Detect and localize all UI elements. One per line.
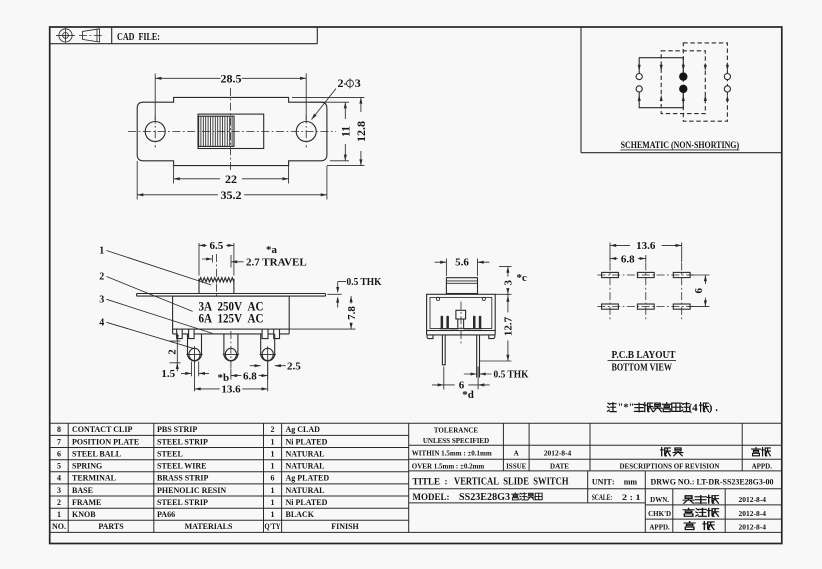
svg-text:MATERIALS: MATERIALS xyxy=(185,522,233,531)
svg-text:SCHEMATIC (NON-SHORTING): SCHEMATIC (NON-SHORTING) xyxy=(621,140,740,151)
svg-text:28.5: 28.5 xyxy=(221,71,242,85)
svg-text:PARTS: PARTS xyxy=(98,522,124,531)
svg-text:2.7 TRAVEL: 2.7 TRAVEL xyxy=(246,257,307,269)
svg-text:35.2: 35.2 xyxy=(221,188,242,202)
svg-text:STEEL STRIP: STEEL STRIP xyxy=(157,437,208,446)
svg-text:2.5: 2.5 xyxy=(287,360,301,372)
svg-text:"*": "*" xyxy=(618,403,635,414)
svg-text:1: 1 xyxy=(271,510,275,519)
svg-text:PBS STRIP: PBS STRIP xyxy=(157,425,197,434)
svg-text:DWN.: DWN. xyxy=(650,496,669,504)
svg-text:SS23E28G3: SS23E28G3 xyxy=(459,492,510,503)
svg-text:5: 5 xyxy=(57,462,61,471)
svg-text:NATURAL: NATURAL xyxy=(286,462,325,471)
svg-text:8: 8 xyxy=(57,425,61,434)
svg-text:CHK'D: CHK'D xyxy=(648,510,671,518)
svg-text:2012-8-4: 2012-8-4 xyxy=(739,523,767,532)
svg-text:2012-8-4: 2012-8-4 xyxy=(739,495,767,504)
svg-text:6: 6 xyxy=(693,288,705,294)
svg-text:3: 3 xyxy=(57,486,61,495)
svg-text:5.6: 5.6 xyxy=(455,256,469,268)
svg-text:0.5 THK: 0.5 THK xyxy=(494,369,529,381)
svg-text:0.5 THK: 0.5 THK xyxy=(347,276,382,288)
svg-text:13.6: 13.6 xyxy=(221,384,241,396)
svg-text:TITLE :: TITLE : xyxy=(413,477,448,487)
svg-text:*c: *c xyxy=(517,272,528,284)
svg-text:APPD.: APPD. xyxy=(752,462,773,470)
svg-text:Ni PLATED: Ni PLATED xyxy=(286,498,328,507)
svg-text:TERMINAL: TERMINAL xyxy=(72,474,116,483)
svg-text:Ni PLATED: Ni PLATED xyxy=(286,437,328,446)
svg-text:1.5: 1.5 xyxy=(161,368,175,380)
svg-text:1: 1 xyxy=(271,462,275,471)
svg-text:3: 3 xyxy=(503,280,515,286)
svg-text:TOLERANCE: TOLERANCE xyxy=(434,426,479,434)
svg-text:OVER 1.5mm : ±0.2mm: OVER 1.5mm : ±0.2mm xyxy=(412,462,485,470)
svg-text:UNIT: UNIT xyxy=(592,478,613,487)
svg-text:NATURAL: NATURAL xyxy=(286,486,325,495)
svg-text:3: 3 xyxy=(99,294,104,305)
svg-text:2-: 2- xyxy=(338,76,348,90)
svg-text:1: 1 xyxy=(271,498,275,507)
svg-text:FINISH: FINISH xyxy=(331,522,359,531)
svg-text:NATURAL: NATURAL xyxy=(286,449,325,458)
svg-text:VERTICAL SLIDE SWITCH: VERTICAL SLIDE SWITCH xyxy=(454,477,569,488)
svg-text:6.8: 6.8 xyxy=(621,253,635,265)
svg-text:KNOB: KNOB xyxy=(72,510,96,519)
svg-text:MODEL:: MODEL: xyxy=(413,492,450,502)
svg-text:DATE: DATE xyxy=(550,462,569,470)
svg-text:SPRING: SPRING xyxy=(72,462,102,471)
svg-text:P.C.B LAYOUT: P.C.B LAYOUT xyxy=(612,349,677,361)
svg-text:Ag CLAD: Ag CLAD xyxy=(286,425,321,434)
svg-text:12.7: 12.7 xyxy=(503,316,515,336)
svg-text:2 : 1: 2 : 1 xyxy=(622,493,641,502)
svg-text:7.8: 7.8 xyxy=(346,306,358,320)
svg-text:PA66: PA66 xyxy=(157,510,175,519)
svg-text:2012-8-4: 2012-8-4 xyxy=(739,509,767,518)
svg-text:*b: *b xyxy=(217,372,229,384)
svg-text:2: 2 xyxy=(271,425,275,434)
svg-text:WITHIN 1.5mm : ±0.1mm: WITHIN 1.5mm : ±0.1mm xyxy=(412,449,492,457)
svg-text:1: 1 xyxy=(271,449,275,458)
svg-text:STEEL STRIP: STEEL STRIP xyxy=(157,498,208,507)
svg-text:2: 2 xyxy=(166,349,178,355)
svg-text:BOTTOM VIEW: BOTTOM VIEW xyxy=(612,362,673,374)
svg-text:UNLESS SPECIFIED: UNLESS SPECIFIED xyxy=(423,437,489,445)
svg-text:POSITION PLATE: POSITION PLATE xyxy=(72,437,139,446)
svg-text:12.8: 12.8 xyxy=(354,121,368,142)
svg-text:6: 6 xyxy=(271,474,275,483)
svg-text:3: 3 xyxy=(355,76,361,90)
svg-text:BRASS STRIP: BRASS STRIP xyxy=(157,474,208,483)
svg-text:1: 1 xyxy=(99,246,104,257)
svg-text:PHENOLIC RESIN: PHENOLIC RESIN xyxy=(157,486,226,495)
svg-text:STEEL WIRE: STEEL WIRE xyxy=(157,462,206,471)
svg-text:4: 4 xyxy=(57,474,61,483)
svg-text:CAD FILE:: CAD FILE: xyxy=(117,32,160,43)
svg-text:STEEL: STEEL xyxy=(157,449,183,458)
svg-text:Q'TY: Q'TY xyxy=(265,522,281,531)
svg-text:STEEL BALL: STEEL BALL xyxy=(72,449,121,458)
svg-text:(4: (4 xyxy=(689,402,699,414)
svg-text:11: 11 xyxy=(338,126,352,137)
svg-text:6.5: 6.5 xyxy=(210,240,224,252)
svg-text:6.8: 6.8 xyxy=(243,370,257,382)
svg-text:BASE: BASE xyxy=(72,486,93,495)
svg-text:Ag PLATED: Ag PLATED xyxy=(286,474,330,483)
svg-text:CONTACT CLIP: CONTACT CLIP xyxy=(72,425,132,434)
svg-text:4: 4 xyxy=(99,317,104,328)
svg-text:*d: *d xyxy=(462,389,474,401)
svg-text:6A 125V AC: 6A 125V AC xyxy=(199,312,264,326)
svg-text:1: 1 xyxy=(271,486,275,495)
svg-text:) .: ) . xyxy=(709,402,718,414)
svg-text:mm: mm xyxy=(624,478,638,487)
svg-text:FRAME: FRAME xyxy=(72,498,101,507)
svg-text:13.6: 13.6 xyxy=(636,240,656,252)
svg-text:2012-8-4: 2012-8-4 xyxy=(544,448,572,457)
svg-text:A: A xyxy=(514,449,519,457)
svg-text:DESCRIPTIONS OF REVISION: DESCRIPTIONS OF REVISION xyxy=(620,462,720,470)
svg-text:7: 7 xyxy=(57,437,61,446)
svg-text:22: 22 xyxy=(225,172,237,186)
svg-text:APPD.: APPD. xyxy=(649,524,670,532)
svg-text:ISSUE: ISSUE xyxy=(506,462,527,470)
svg-text:6: 6 xyxy=(57,449,61,458)
svg-text:1: 1 xyxy=(57,510,61,519)
svg-text:1: 1 xyxy=(271,437,275,446)
svg-text:BLACK: BLACK xyxy=(286,510,315,519)
svg-text:SCALE:: SCALE: xyxy=(592,493,613,502)
svg-text:NO.: NO. xyxy=(52,522,66,531)
svg-text:*a: *a xyxy=(266,244,278,256)
svg-text:2: 2 xyxy=(99,271,104,282)
svg-text::: : xyxy=(612,478,615,487)
svg-text:DRWG NO.: LT-DR-SS23E28G3-00: DRWG NO.: LT-DR-SS23E28G3-00 xyxy=(651,477,774,486)
svg-text:2: 2 xyxy=(57,498,61,507)
